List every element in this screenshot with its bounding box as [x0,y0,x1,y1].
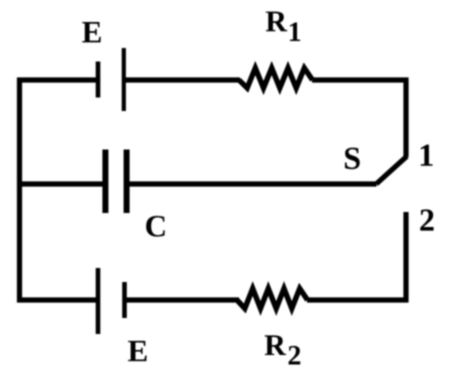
label C (capacitor) [146,216,165,237]
switch S blade (diagonal, open between terminal 1 and middle wire) [376,156,407,184]
label S (switch) [345,148,360,170]
wire: middle-left horizontal (left bus to capacitor) [17,181,105,186]
wire: left vertical bus [17,78,22,303]
wire: bottom-left horizontal (left bus to battery E bottom) [17,297,98,302]
label R (of R1) [266,12,287,32]
label subscript 2 (of R2) [289,346,301,365]
capacitor C right plate [124,150,130,214]
resistor R2 zigzag [237,289,308,309]
wire: bottom-right horizontal (R2 to right corner) [307,297,409,302]
wire: bottom horizontal (battery to resistor R2) [125,297,240,302]
label E (bottom battery) [128,341,147,361]
capacitor C left plate [102,150,108,214]
label subscript 1 (of R1) [290,22,300,40]
label E (top battery) [82,22,101,42]
wire: terminal 2 vertical stub [403,212,408,303]
battery E (top) negative short plate [96,62,101,98]
label 1 (terminal 1) [421,145,433,166]
wire: top-right horizontal (R1 to right corner) [312,77,409,82]
label 2 (terminal 2) [420,209,433,230]
battery E (bottom) negative short plate [122,282,127,318]
resistor R1 zigzag [239,68,313,88]
wire: top-left horizontal (left bus to battery E top) [17,77,98,82]
wire: top horizontal (battery to resistor R1) [124,77,240,82]
label R (of R2) [265,335,286,355]
battery E (top) positive long plate [122,48,126,111]
wire: right vertical drop to switch terminal 1 [403,78,408,158]
battery E (bottom) positive long plate [96,268,101,334]
wire: middle horizontal right of capacitor to switch [127,181,377,186]
